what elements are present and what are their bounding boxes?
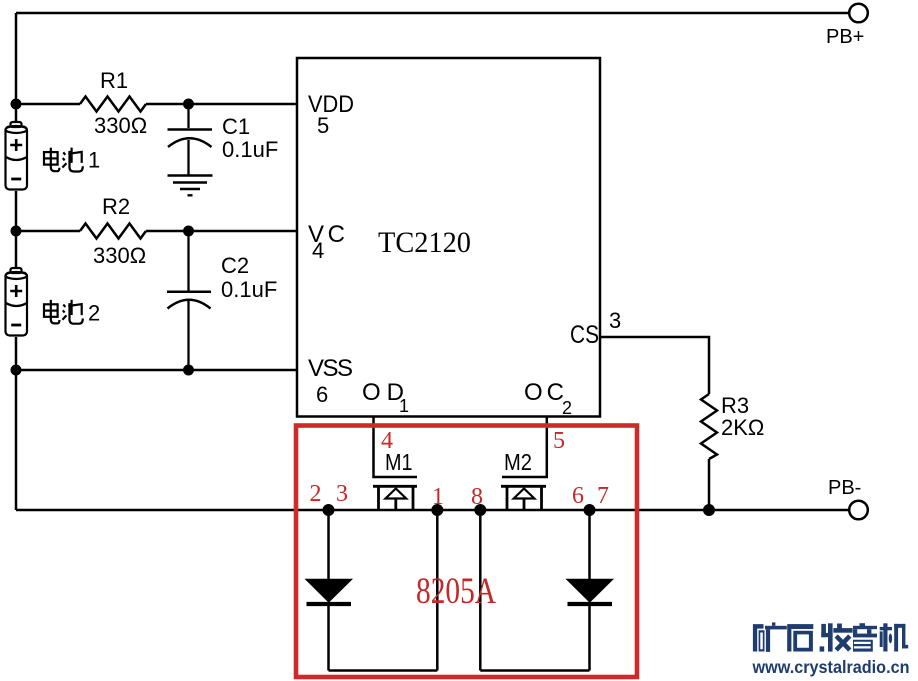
svg-text:2: 2 bbox=[562, 398, 572, 418]
capacitor C1 bbox=[168, 104, 213, 175]
diode D1 bbox=[307, 510, 352, 671]
terminal PB+ bbox=[849, 4, 868, 23]
wire pin8 drop bbox=[479, 510, 482, 671]
node VDD-C1 bbox=[183, 99, 194, 110]
wire pin8 to D2 bottom bbox=[480, 669, 589, 672]
svg-text:0.1uF: 0.1uF bbox=[221, 277, 277, 302]
battery BT1 bbox=[6, 122, 28, 190]
svg-text:330Ω: 330Ω bbox=[93, 243, 146, 268]
node R3-bottom bbox=[703, 504, 715, 516]
node pin1 bbox=[431, 504, 443, 516]
wire battery1 to node2 bbox=[15, 191, 18, 268]
wire CS to R3 bbox=[600, 337, 709, 394]
svg-text:4: 4 bbox=[312, 238, 324, 263]
svg-text:0.1uF: 0.1uF bbox=[222, 137, 278, 162]
transistor M1 bbox=[373, 486, 417, 510]
svg-text:6: 6 bbox=[572, 483, 584, 509]
node pin67 bbox=[584, 504, 596, 516]
node VSS-left bbox=[11, 365, 22, 376]
svg-text:3: 3 bbox=[336, 481, 348, 507]
node VC-left bbox=[11, 226, 22, 237]
svg-text:VDD: VDD bbox=[308, 91, 354, 118]
svg-text:1: 1 bbox=[399, 396, 409, 416]
label battery2 (dianchi2) bbox=[44, 300, 83, 324]
wire OD1 gate lead bbox=[374, 417, 418, 478]
svg-text:1: 1 bbox=[88, 148, 100, 173]
svg-text:1: 1 bbox=[432, 484, 444, 510]
svg-text:330Ω: 330Ω bbox=[94, 113, 147, 138]
logo char kuang bbox=[753, 622, 787, 652]
wire pin1 drop bbox=[436, 510, 439, 671]
svg-text:C1: C1 bbox=[222, 114, 250, 139]
svg-text:5: 5 bbox=[553, 428, 565, 454]
svg-text:OD: OD bbox=[362, 379, 404, 406]
svg-text:8: 8 bbox=[471, 484, 483, 510]
svg-text:3: 3 bbox=[609, 308, 621, 333]
wire VSS rail bbox=[16, 369, 297, 372]
svg-text:2: 2 bbox=[88, 301, 100, 326]
logo char ji bbox=[880, 623, 909, 651]
svg-text:M2: M2 bbox=[504, 449, 532, 475]
wire left rail bbox=[15, 13, 18, 122]
diode D2 bbox=[568, 510, 613, 671]
node VDD-left bbox=[11, 99, 22, 110]
svg-text:www.crystalradio.cn: www.crystalradio.cn bbox=[752, 657, 910, 677]
label battery1 (dianchi1) bbox=[44, 148, 83, 172]
transistor M2 bbox=[501, 486, 546, 510]
wire R3 to bottom rail bbox=[708, 459, 711, 510]
svg-text:PB+: PB+ bbox=[826, 26, 864, 48]
op IC U1 TC2120 box bbox=[297, 58, 600, 417]
wire D1 bottom to pin1 bbox=[329, 669, 438, 672]
logo char shou bbox=[820, 623, 853, 651]
battery BT2 bbox=[6, 268, 28, 336]
resistor R2 bbox=[80, 224, 146, 239]
svg-text:R1: R1 bbox=[100, 68, 128, 93]
svg-text:8205A: 8205A bbox=[416, 571, 496, 612]
ground bbox=[168, 176, 213, 196]
svg-text:2: 2 bbox=[310, 481, 322, 507]
svg-text:2KΩ: 2KΩ bbox=[721, 415, 764, 440]
logo char yin bbox=[853, 623, 877, 651]
wire bottom rail bbox=[16, 509, 848, 512]
svg-text:6: 6 bbox=[316, 382, 328, 407]
node VC-C2 bbox=[183, 226, 194, 237]
svg-text:C2: C2 bbox=[221, 253, 249, 278]
wire VDD rail bbox=[16, 103, 297, 106]
resistor R1 bbox=[80, 97, 146, 112]
svg-text:5: 5 bbox=[317, 113, 329, 138]
svg-text:4: 4 bbox=[381, 428, 393, 454]
svg-text:7: 7 bbox=[597, 483, 609, 509]
module box 8205A (red) bbox=[296, 426, 637, 678]
node pin8 bbox=[474, 504, 486, 516]
svg-text:PB-: PB- bbox=[828, 477, 861, 499]
wire top rail bbox=[16, 12, 848, 15]
node VSS-C2 bbox=[183, 365, 194, 376]
wire OC2 gate lead bbox=[502, 417, 547, 478]
node pin23 bbox=[323, 504, 335, 516]
svg-text:R2: R2 bbox=[102, 194, 130, 219]
logo char shi bbox=[787, 624, 813, 651]
svg-text:CS: CS bbox=[570, 321, 599, 349]
wire VC rail bbox=[16, 230, 297, 233]
terminal PB- bbox=[849, 501, 868, 520]
svg-text:VSS: VSS bbox=[308, 355, 353, 382]
wire battery2 to VSS rail bbox=[15, 337, 18, 510]
svg-text:TC2120: TC2120 bbox=[378, 226, 471, 259]
resistor R3 bbox=[701, 394, 717, 459]
svg-text:OC: OC bbox=[524, 379, 564, 406]
logo kuangshi shouyinji bbox=[753, 622, 908, 652]
capacitor C2 bbox=[167, 231, 211, 370]
